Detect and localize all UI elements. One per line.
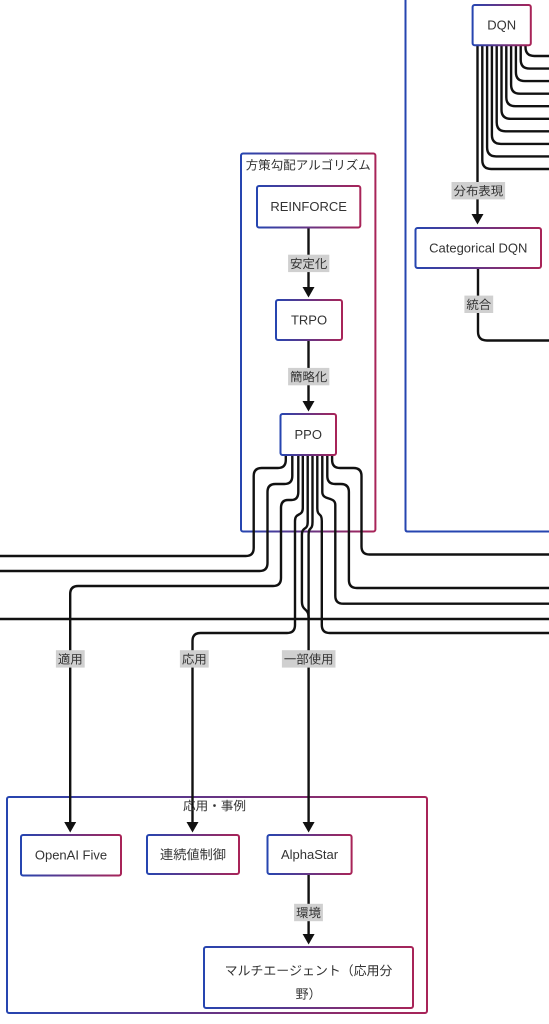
edge PPO fan 5 (merges left) xyxy=(302,455,309,618)
edge label 一部使用 xyxy=(282,650,336,667)
edge PPO fan 2 (to off-canvas left) xyxy=(0,455,292,571)
subgraph container 方策勾配アルゴリズム xyxy=(241,154,375,532)
edge DQN fan line 6 (to off-canvas right) xyxy=(506,45,549,106)
container title 応用・事例 xyxy=(183,800,245,812)
svg-text:OpenAI Five: OpenAI Five xyxy=(35,848,107,863)
edge DQN fan line 8 (to off-canvas right) xyxy=(516,45,549,81)
node 連続値制御 xyxy=(147,835,239,874)
edge PPO fan 7 (to off-canvas right) xyxy=(317,455,549,633)
svg-text:PPO: PPO xyxy=(295,427,322,442)
container title 方策勾配アルゴリズム xyxy=(246,159,370,171)
svg-text:AlphaStar: AlphaStar xyxy=(281,847,339,862)
edge DQN fan line 4 (to off-canvas right) xyxy=(497,45,549,131)
edge label 簡略化 xyxy=(288,368,329,385)
edge REINFORCE to TRPO (安定化) xyxy=(307,228,309,288)
edge PPO to AlphaStar (一部使用) xyxy=(309,455,313,822)
edge label 適用 xyxy=(56,650,85,667)
edge DQN fan line 3 (to off-canvas right) xyxy=(492,45,549,144)
edge DQN to Categorical DQN (分布表現) xyxy=(476,45,478,214)
edge label 環境 xyxy=(294,904,323,921)
svg-text:DQN: DQN xyxy=(487,18,516,33)
node PPO xyxy=(281,414,337,455)
edge DQN fan line 2 (to off-canvas right) xyxy=(487,45,549,156)
node Categorical DQN xyxy=(416,228,542,268)
node TRPO xyxy=(276,300,342,340)
node マルチエージェント（応用分野） xyxy=(204,947,413,1008)
node REINFORCE xyxy=(257,186,360,228)
edge TRPO to PPO (簡略化) xyxy=(307,340,309,401)
edge DQN fan line 5 (to off-canvas right) xyxy=(502,45,549,119)
edge label 安定化 xyxy=(288,255,329,272)
edge PPO fan 10 (to off-canvas right) xyxy=(332,455,549,555)
edge PPO fan 1 (to off-canvas left) xyxy=(0,455,286,556)
svg-text:REINFORCE: REINFORCE xyxy=(270,199,347,214)
edge Categorical DQN out (統合, to off-canvas right) xyxy=(478,268,549,341)
edge PPO to OpenAI Five (適用) xyxy=(70,455,298,822)
edge DQN fan line 10 (to off-canvas right) xyxy=(526,45,549,56)
edge PPO to 連続値制御 (応用) xyxy=(193,455,303,822)
subgraph container 応用・事例 xyxy=(7,797,427,1013)
edge pass-through horizontal xyxy=(0,618,549,620)
edge DQN fan line 7 (to off-canvas right) xyxy=(511,45,549,94)
svg-text:TRPO: TRPO xyxy=(291,313,327,328)
edge label 応用 xyxy=(180,650,209,667)
edge DQN fan line 9 (to off-canvas right) xyxy=(521,45,549,69)
edge AlphaStar to マルチエージェント (環境) xyxy=(307,874,309,934)
node OpenAI Five xyxy=(21,835,121,876)
edge label 分布表現 xyxy=(452,182,506,199)
edge DQN fan line 1 (to off-canvas right) xyxy=(482,45,549,169)
svg-text:Categorical DQN: Categorical DQN xyxy=(429,241,527,256)
edge PPO fan 9 (to off-canvas right) xyxy=(327,455,549,588)
node DQN xyxy=(473,5,531,45)
node AlphaStar xyxy=(268,835,352,874)
edge PPO fan 8 (to off-canvas right) xyxy=(322,455,549,604)
subgraph container (DQN group, cropped) xyxy=(406,0,549,532)
edge label 統合 xyxy=(464,296,493,313)
